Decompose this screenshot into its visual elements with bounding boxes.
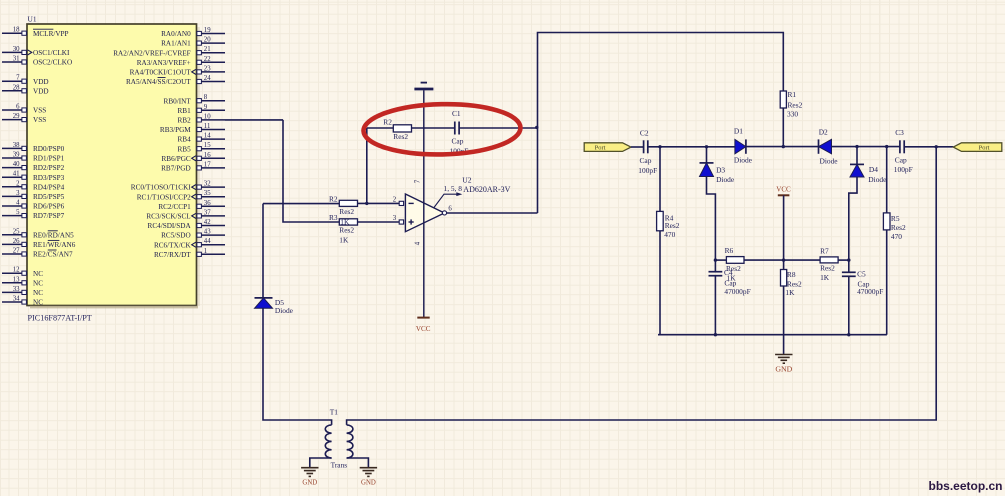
wire D2 to C3 — [832, 146, 900, 148]
svg-text:RD6/PSP6: RD6/PSP6 — [33, 203, 65, 211]
svg-text:40: 40 — [13, 161, 20, 168]
U1 pin 38 RD0/PSP0 (left) — [2, 142, 65, 153]
svg-text:NC: NC — [33, 299, 43, 307]
resistor R2 (feedback) — [383, 118, 411, 141]
node transformer tap junction — [935, 145, 938, 148]
wire feedback row — [367, 127, 537, 129]
svg-text:44: 44 — [204, 238, 211, 245]
diode D2 — [819, 127, 839, 165]
U1 pin 30 OSC1/CLKI (left) — [2, 46, 70, 57]
U1 pin 40 RD2/PSP2 (left) — [2, 161, 65, 172]
svg-text:RE0/RD/AN5: RE0/RD/AN5 — [33, 231, 74, 239]
diode D4 — [850, 164, 887, 184]
resistor R7 — [820, 247, 838, 282]
svg-text:37: 37 — [204, 209, 211, 216]
U2 pins 1,5,8 leader — [434, 184, 462, 208]
U2 part name AD620AR-3V — [463, 185, 510, 194]
svg-text:1K: 1K — [785, 288, 795, 297]
svg-text:RD7/PSP7: RD7/PSP7 — [33, 212, 65, 220]
svg-text:D3: D3 — [716, 165, 725, 174]
svg-text:R2: R2 — [383, 118, 392, 127]
svg-text:43: 43 — [204, 229, 211, 236]
wire R7 row — [784, 259, 849, 261]
node R5 junction — [885, 145, 888, 148]
svg-text:33: 33 — [13, 286, 20, 293]
svg-text:Res2: Res2 — [339, 225, 354, 234]
U2 designator — [462, 176, 471, 185]
svg-text:36: 36 — [204, 200, 211, 207]
svg-text:C1: C1 — [452, 109, 461, 118]
svg-text:RB6/PGC: RB6/PGC — [162, 155, 191, 163]
svg-text:35: 35 — [204, 190, 211, 197]
svg-text:R5: R5 — [891, 214, 900, 223]
node rail C5 junction — [847, 333, 850, 336]
wire D5 vertical — [262, 204, 264, 298]
svg-text:470: 470 — [664, 230, 675, 239]
diode D3 — [700, 163, 735, 184]
svg-text:U1: U1 — [28, 15, 37, 24]
U1 pin 10 RB2 (right) — [178, 113, 225, 124]
wire R6 row — [715, 259, 783, 261]
U1 pin 32 RC0/T1OSO/T1CKI (right) — [131, 181, 225, 192]
IC U1 PIC16F877AT-I/PT body — [27, 24, 200, 308]
svg-text:R7: R7 — [820, 247, 829, 256]
svg-text:Cap: Cap — [452, 137, 464, 146]
svg-text:14: 14 — [204, 133, 211, 140]
U1 pin 44 RC6/TX/CK (right) — [154, 238, 225, 249]
U1 pin 39 RD1/PSP1 (left) — [2, 152, 65, 163]
svg-text:Port: Port — [979, 145, 990, 152]
capacitor C1 — [450, 109, 469, 155]
svg-text:OSC1/CLKI: OSC1/CLKI — [33, 49, 70, 57]
wire D5 to transformer — [263, 308, 332, 425]
svg-text:RC0/T1OSO/T1CKI: RC0/T1OSO/T1CKI — [131, 184, 192, 192]
U1 pin 15 RB5 (right) — [178, 142, 225, 153]
svg-text:U2: U2 — [462, 176, 471, 185]
U1 pin 31 OSC2/CLKO (left) — [2, 56, 72, 67]
wire RB2 pin10 to vertical — [225, 119, 283, 121]
svg-text:RD4/PSP4: RD4/PSP4 — [33, 183, 65, 191]
node R7 right junction — [847, 258, 850, 261]
wire C4 to bottom rail — [714, 276, 716, 335]
svg-text:38: 38 — [13, 142, 20, 149]
U1 part name PIC16F877AT-I/PT — [28, 314, 92, 323]
svg-text:2: 2 — [393, 196, 397, 203]
svg-text:GND: GND — [775, 365, 792, 374]
svg-text:3: 3 — [16, 190, 20, 197]
wire D3 anode jog to R6 junction — [707, 177, 716, 272]
U1 pin 29 VSS (left) — [2, 113, 46, 124]
svg-text:Diode: Diode — [716, 175, 735, 184]
U1 pin 35 RC1/T1OSI/CCP2 (right) — [137, 190, 225, 201]
svg-text:RB1: RB1 — [178, 107, 192, 115]
svg-text:RA5/AN4/SS/C2OUT: RA5/AN4/SS/C2OUT — [126, 78, 191, 86]
svg-text:6: 6 — [16, 104, 20, 111]
svg-text:RA2/AN2/VREF-/CVREF: RA2/AN2/VREF-/CVREF — [113, 49, 190, 57]
svg-text:Res2: Res2 — [788, 101, 803, 110]
wire op-amp output — [447, 212, 538, 214]
svg-text:10: 10 — [204, 113, 211, 120]
svg-text:RA4/T0CKI/C1OUT: RA4/T0CKI/C1OUT — [130, 69, 192, 77]
U1 pin 36 RC2/CCP1 (right) — [158, 200, 225, 211]
svg-text:21: 21 — [204, 46, 211, 53]
resistor R3 — [329, 213, 399, 245]
U1 pin 18 MCLR/VPP (left) — [2, 27, 69, 38]
U1 pin 17 RB7/PGD (right) — [161, 161, 225, 172]
svg-text:41: 41 — [13, 171, 20, 178]
svg-text:5: 5 — [16, 209, 20, 216]
resistor R8 — [781, 270, 802, 298]
U1 pin 41 RD3/PSP3 (left) — [2, 171, 65, 182]
resistor R4 — [657, 211, 680, 239]
resistor R1 — [780, 90, 802, 147]
svg-text:VDD: VDD — [33, 78, 49, 86]
node rail C4 junction — [714, 333, 717, 336]
svg-text:RC6/TX/CK: RC6/TX/CK — [154, 241, 192, 249]
node D3 junction — [705, 145, 708, 148]
op-amp U2 AD620AR-3V — [393, 179, 453, 245]
svg-text:30: 30 — [13, 46, 20, 53]
svg-text:29: 29 — [13, 113, 20, 120]
svg-text:28: 28 — [13, 84, 20, 91]
capacitor C3 — [894, 128, 913, 174]
capacitor C2 — [638, 128, 657, 175]
svg-text:RD0/PSP0: RD0/PSP0 — [33, 145, 65, 153]
wire D1 to D2 — [746, 146, 819, 148]
ground GND (transformer left) — [301, 468, 318, 487]
wire GND to op-amp and to VCC bar — [423, 90, 425, 317]
resistor R6 — [725, 246, 744, 283]
svg-text:RE1/WR/AN6: RE1/WR/AN6 — [33, 241, 76, 249]
svg-text:Res2: Res2 — [393, 132, 408, 141]
svg-text:Diode: Diode — [734, 156, 753, 165]
power VCC (middle) — [776, 186, 791, 196]
U1 pin 22 RA3/AN3/VREF+ (right) — [137, 56, 225, 67]
svg-text:7: 7 — [415, 179, 422, 183]
svg-text:R2: R2 — [329, 195, 338, 204]
U1 pin 42 RC4/SDI/SDA (right) — [148, 219, 225, 230]
svg-text:RD1/PSP1: RD1/PSP1 — [33, 155, 65, 163]
U1 pin 43 RC5/SDO (right) — [161, 229, 225, 240]
svg-text:OSC2/CLKO: OSC2/CLKO — [33, 59, 72, 67]
U1 pin 33 NC (left) — [2, 286, 43, 297]
svg-text:2: 2 — [16, 180, 20, 187]
U1 pin 23 RA4/T0CKI/C1OUT (right) — [130, 65, 225, 76]
svg-text:6: 6 — [448, 205, 452, 212]
svg-text:NC: NC — [33, 279, 43, 287]
U1 pin 21 RA2/AN2/VREF-/CVREF (right) — [113, 46, 225, 57]
svg-text:MCLR/VPP: MCLR/VPP — [33, 30, 69, 38]
wire R8 to GND — [783, 286, 785, 354]
ground GND (transformer right) — [360, 468, 377, 487]
svg-text:Cap: Cap — [640, 156, 652, 165]
svg-text:NC: NC — [33, 289, 43, 297]
wire R4 to bottom rail — [659, 231, 661, 335]
red highlight ellipse around R2 and C1 — [363, 103, 521, 156]
svg-text:D1: D1 — [734, 127, 743, 136]
svg-text:23: 23 — [204, 65, 211, 72]
svg-text:24: 24 — [204, 75, 211, 82]
wire feedback left vertical — [366, 128, 368, 203]
svg-text:D2: D2 — [819, 127, 828, 136]
power VCC (op-amp pin 4) — [416, 318, 431, 333]
U1 pin 28 VDD (left) — [2, 84, 49, 95]
svg-text:R6: R6 — [725, 246, 734, 255]
U1 pin 6 VSS (left) — [2, 104, 46, 115]
svg-text:VSS: VSS — [33, 116, 46, 124]
svg-text:R3: R3 — [329, 213, 338, 222]
power ground (op-amp pin 7) — [414, 83, 433, 89]
svg-text:47000pF: 47000pF — [857, 287, 883, 296]
svg-text:1: 1 — [204, 248, 207, 255]
node junction R2 output / feedback — [365, 202, 368, 205]
svg-text:39: 39 — [13, 152, 20, 159]
svg-text:12: 12 — [13, 267, 20, 274]
port Port (left) — [584, 143, 631, 152]
node R1 bottom junction — [782, 145, 785, 148]
svg-text:34: 34 — [13, 296, 20, 303]
wire C5 to bottom rail — [848, 276, 850, 334]
svg-text:RC2/CCP1: RC2/CCP1 — [158, 203, 191, 211]
resistor R2 (input) — [329, 195, 399, 216]
svg-text:11: 11 — [204, 123, 211, 130]
wire transformer to right port net — [347, 147, 937, 425]
svg-text:R8: R8 — [787, 270, 796, 279]
wire R2 input row — [263, 203, 339, 205]
U1 pin 26 RE1/WR/AN6 (left) — [2, 238, 76, 249]
svg-text:9: 9 — [204, 104, 208, 111]
svg-text:7: 7 — [16, 75, 20, 82]
svg-text:RA1/AN1: RA1/AN1 — [161, 40, 191, 48]
diode D5 — [255, 298, 294, 315]
svg-text:RB5: RB5 — [178, 145, 192, 153]
node D4 junction — [855, 145, 858, 148]
svg-text:C2: C2 — [640, 128, 649, 137]
capacitor C4 — [709, 268, 751, 296]
svg-text:RB4: RB4 — [178, 136, 192, 144]
port Port (right) — [953, 143, 1002, 152]
U1 designator — [28, 15, 37, 24]
svg-text:VSS: VSS — [33, 107, 46, 115]
capacitor C5 — [842, 270, 883, 297]
svg-text:22: 22 — [204, 56, 211, 63]
svg-text:1K: 1K — [820, 273, 830, 282]
U1 pin 34 NC (left) — [2, 296, 43, 307]
U1 pin 24 RA5/AN4/SS/C2OUT (right) — [126, 75, 225, 86]
svg-text:17: 17 — [204, 161, 211, 168]
svg-text:RC1/T1OSI/CCP2: RC1/T1OSI/CCP2 — [137, 193, 191, 201]
svg-text:RC7/RX/DT: RC7/RX/DT — [154, 251, 191, 259]
svg-text:19: 19 — [204, 27, 211, 34]
svg-text:Res2: Res2 — [820, 263, 835, 272]
U1 pin 12 NC (left) — [2, 267, 43, 278]
svg-text:bbs.eetop.cn: bbs.eetop.cn — [928, 479, 1002, 493]
svg-text:47000pF: 47000pF — [724, 287, 750, 296]
wire D3 branch — [706, 147, 708, 163]
svg-text:RB2: RB2 — [178, 117, 192, 125]
svg-text:C3: C3 — [895, 128, 904, 137]
svg-text:RD5/PSP5: RD5/PSP5 — [33, 193, 65, 201]
node C2/R4 junction — [658, 145, 661, 148]
node VCC/R8 junction — [782, 258, 785, 261]
svg-text:25: 25 — [13, 228, 20, 235]
svg-text:PIC16F877AT-I/PT: PIC16F877AT-I/PT — [28, 314, 92, 323]
wire left port to C2 — [631, 146, 644, 148]
U1 pin 27 RE2/CS/AN7 (left) — [2, 248, 73, 259]
svg-text:VCC: VCC — [416, 325, 431, 333]
resistor R5 — [883, 213, 906, 241]
svg-text:18: 18 — [13, 27, 20, 34]
svg-text:13: 13 — [13, 276, 20, 283]
U1 pin 4 RD6/PSP6 (left) — [2, 200, 65, 211]
svg-text:Res2: Res2 — [665, 221, 680, 230]
svg-text:AD620AR-3V: AD620AR-3V — [463, 185, 510, 194]
svg-text:1K: 1K — [339, 235, 349, 244]
svg-text:R1: R1 — [788, 90, 797, 99]
wire transformer left bottom to GND — [310, 458, 332, 468]
watermark bbs.eetop.cn — [928, 479, 1002, 493]
diode D1 — [734, 127, 753, 165]
svg-text:RB3/PGM: RB3/PGM — [160, 126, 191, 134]
svg-text:C4: C4 — [724, 268, 733, 277]
wire C2 junction to R4 — [659, 147, 661, 212]
svg-text:T1: T1 — [330, 408, 339, 417]
U1 pin 1 RC7/RX/DT (right) — [154, 248, 225, 259]
U1 pin 19 RA0/AN0 (right) — [161, 27, 225, 38]
wire R5 junction down — [886, 147, 888, 213]
svg-text:RA0/AN0: RA0/AN0 — [161, 30, 191, 38]
svg-text:3: 3 — [393, 215, 397, 222]
svg-text:100pF: 100pF — [894, 165, 913, 174]
svg-text:VDD: VDD — [33, 87, 49, 95]
wire main row C2 to D1 — [648, 146, 735, 148]
U1 pin 7 VDD (left) — [2, 75, 49, 86]
svg-text:RC5/SDO: RC5/SDO — [161, 232, 191, 240]
svg-text:4: 4 — [16, 200, 20, 207]
svg-text:RC3/SCK/SCL: RC3/SCK/SCL — [146, 213, 190, 221]
svg-text:8: 8 — [204, 94, 208, 101]
U1 pin 25 RE0/RD/AN5 (left) — [2, 228, 74, 239]
svg-text:42: 42 — [204, 219, 211, 226]
U1 pin 2 RD4/PSP4 (left) — [2, 180, 65, 191]
svg-text:Res2: Res2 — [339, 207, 354, 216]
svg-text:NC: NC — [33, 270, 43, 278]
svg-text:C5: C5 — [857, 270, 866, 279]
svg-text:Res2: Res2 — [891, 223, 906, 232]
svg-text:Cap: Cap — [895, 156, 907, 165]
svg-text:470: 470 — [891, 232, 902, 241]
svg-text:330: 330 — [787, 110, 798, 119]
wire output vertical to top — [538, 33, 784, 214]
U1 pin 9 RB1 (right) — [178, 104, 225, 115]
U1 pin 11 RB3/PGM (right) — [160, 123, 225, 134]
svg-text:32: 32 — [204, 181, 211, 188]
svg-text:RE2/CS/AN7: RE2/CS/AN7 — [33, 251, 73, 259]
U1 pin 3 RD5/PSP5 (left) — [2, 190, 65, 201]
svg-text:Diode: Diode — [275, 306, 294, 315]
wire D4 branch — [856, 147, 858, 165]
svg-text:20: 20 — [204, 37, 211, 44]
svg-text:16: 16 — [204, 152, 211, 159]
svg-text:VCC: VCC — [776, 186, 791, 194]
wire RB2 vertical down to R3 row — [283, 120, 339, 222]
U1 pin 37 RC3/SCK/SCL (right) — [146, 209, 225, 220]
U1 pin 13 NC (left) — [2, 276, 43, 287]
wire VCC to R6/R7 row — [783, 195, 785, 269]
svg-text:Port: Port — [595, 145, 606, 152]
svg-text:D4: D4 — [869, 165, 878, 174]
U1 pin 16 RB6/PGC (right) — [162, 152, 225, 163]
bottom rail — [658, 334, 887, 336]
svg-text:GND: GND — [361, 480, 376, 487]
svg-text:GND: GND — [302, 480, 317, 487]
U1 pin 14 RB4 (right) — [178, 133, 225, 144]
svg-text:27: 27 — [13, 248, 20, 255]
U1 pin 20 RA1/AN1 (right) — [161, 37, 225, 48]
svg-text:RB0/INT: RB0/INT — [164, 97, 192, 105]
svg-text:26: 26 — [13, 238, 20, 245]
wire D4 anode jog to R7 junction — [849, 177, 857, 272]
node feedback to output — [535, 126, 538, 129]
ground GND (middle) — [775, 355, 793, 374]
svg-text:Trans: Trans — [331, 461, 348, 470]
svg-text:RC4/SDI/SDA: RC4/SDI/SDA — [148, 222, 192, 230]
svg-text:RA3/AN3/VREF+: RA3/AN3/VREF+ — [137, 59, 191, 67]
node R6 left junction — [714, 258, 717, 261]
U1 pin 5 RD7/PSP7 (left) — [2, 209, 65, 220]
wire R5 to bottom rail — [886, 230, 888, 335]
U1 pin 8 RB0/INT (right) — [164, 94, 225, 105]
svg-text:RD2/PSP2: RD2/PSP2 — [33, 164, 65, 172]
svg-text:15: 15 — [204, 142, 211, 149]
wire transformer right bottom to GND — [347, 458, 369, 468]
svg-text:RD3/PSP3: RD3/PSP3 — [33, 174, 65, 182]
svg-text:31: 31 — [13, 56, 20, 63]
svg-text:Diode: Diode — [868, 175, 887, 184]
svg-text:Diode: Diode — [820, 156, 839, 165]
svg-text:100pF: 100pF — [638, 166, 657, 175]
svg-text:RB7/PGD: RB7/PGD — [161, 165, 191, 173]
svg-text:1, 5, 8: 1, 5, 8 — [444, 184, 463, 193]
svg-text:4: 4 — [415, 241, 422, 245]
wire C3 to right port — [904, 146, 953, 148]
transformer T1 — [325, 408, 353, 470]
